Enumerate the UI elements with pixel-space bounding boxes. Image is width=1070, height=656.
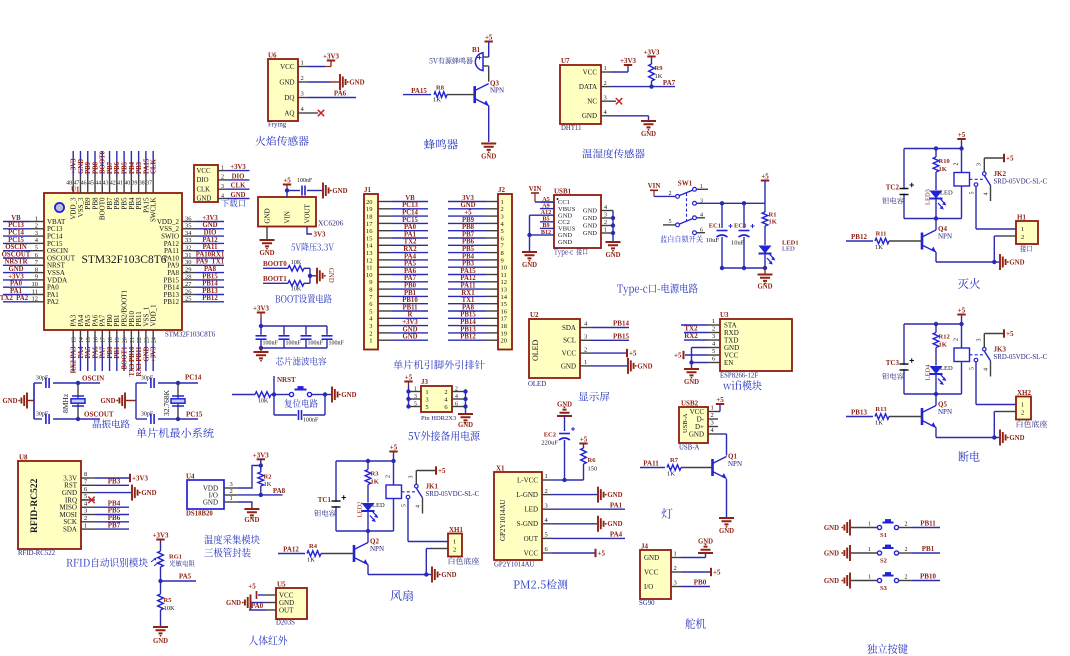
svg-text:+5: +5 (958, 131, 966, 139)
wire left pin 2 net PC13 (3, 222, 44, 229)
svg-text:100nF: 100nF (308, 341, 324, 347)
connector USB2 USB-A (679, 400, 718, 452)
ground Q1 (719, 518, 734, 535)
svg-text:5: 5 (545, 532, 548, 539)
svg-text:OSCIN: OSCIN (82, 375, 104, 383)
sensor U7 DHT11 (560, 57, 611, 132)
wire J2 pin 20 net PB12 (448, 334, 498, 341)
wire net PB10 (899, 573, 941, 581)
sensor U5 D203S human IR (266, 581, 307, 627)
svg-text:LED: LED (372, 502, 385, 509)
svg-text:19: 19 (366, 206, 373, 213)
svg-text:18: 18 (501, 323, 508, 330)
ground DHT11 (641, 121, 656, 138)
svg-text:PA7: PA7 (100, 346, 107, 359)
svg-text:VIN: VIN (284, 211, 292, 223)
svg-text:XC6206: XC6206 (318, 219, 344, 228)
svg-text:R3: R3 (371, 471, 380, 478)
wire net PA5 (158, 573, 196, 584)
svg-text:PA6: PA6 (334, 90, 347, 98)
resistor R5 10K (158, 581, 175, 626)
svg-text:5: 5 (414, 401, 417, 407)
svg-text:4: 4 (983, 368, 989, 371)
svg-text:PB9: PB9 (462, 217, 475, 224)
sensor X1 GP2Y1014AU PM2.5 (494, 465, 552, 569)
svg-text:NPN: NPN (938, 408, 952, 416)
svg-text:R5: R5 (164, 597, 173, 604)
power +3V3 RFID (95, 474, 149, 483)
svg-text:4: 4 (545, 517, 549, 524)
svg-text:LED: LED (782, 246, 795, 253)
wire J2 pin 12 net PA12 (448, 275, 498, 282)
svg-text:4: 4 (711, 427, 715, 434)
svg-text:R9: R9 (655, 65, 664, 72)
svg-text:PB3: PB3 (136, 161, 143, 174)
svg-text:+5: +5 (485, 34, 493, 42)
svg-text:GND: GND (402, 334, 417, 341)
svg-text:+3V3: +3V3 (402, 319, 418, 326)
wire net PA12 with resistor R4 1K (278, 543, 354, 564)
svg-text:6: 6 (84, 486, 88, 493)
svg-text:3: 3 (414, 394, 417, 400)
svg-text:2: 2 (669, 191, 672, 197)
power +5 JK1 rail (389, 444, 397, 464)
svg-text:CLK: CLK (231, 183, 246, 190)
wire right pin 31 net PA10RX1 (182, 251, 225, 258)
svg-text:SG90: SG90 (639, 600, 655, 607)
svg-text:VCC: VCC (197, 168, 211, 175)
svg-text:GND: GND (582, 112, 597, 120)
svg-text:NPN: NPN (490, 87, 504, 95)
svg-text:OUT: OUT (524, 535, 539, 543)
wire J1 pin 3 net +3V3 (378, 319, 428, 326)
svg-text:3: 3 (369, 323, 372, 330)
svg-text:5: 5 (712, 348, 715, 355)
svg-text:DIO: DIO (197, 177, 209, 184)
wire bottom pin 22 net RX3 PB11 (136, 330, 143, 377)
svg-text:PB10: PB10 (920, 573, 936, 581)
svg-text:+5: +5 (283, 177, 291, 185)
svg-text:PA11: PA11 (643, 460, 659, 468)
LED LED3 (925, 189, 953, 218)
svg-text:TC3: TC3 (886, 359, 900, 367)
title 舵机 (685, 618, 705, 629)
ground J3 (458, 392, 473, 430)
svg-text:PB1: PB1 (114, 346, 121, 359)
svg-text:RX2: RX2 (403, 246, 417, 253)
wire bottom pin 15 net PA5 (85, 330, 92, 371)
svg-text:3: 3 (230, 481, 233, 488)
svg-text:2: 2 (386, 475, 392, 478)
capacitor TC3 tantalum (882, 358, 914, 379)
wire BOOT junction to ground (308, 268, 316, 283)
title 人体红外 (249, 635, 287, 645)
svg-text:5: 5 (369, 308, 372, 315)
wire J1 pin 18 net PC14 (378, 210, 428, 217)
svg-text:R7: R7 (670, 457, 679, 464)
svg-text:2: 2 (455, 386, 458, 392)
svg-text:GND: GND (583, 208, 597, 215)
resistor R2 1K (258, 466, 272, 495)
wire right pin 30 net PA9 TX1 (182, 259, 225, 266)
svg-text:PB0: PB0 (404, 283, 417, 290)
svg-text:+5: +5 (580, 436, 588, 444)
ground at regulator GND pin (259, 227, 274, 258)
svg-text:LED: LED (524, 506, 538, 514)
svg-text:5: 5 (501, 228, 504, 235)
no-connect AQ (308, 110, 324, 116)
ground RFID (95, 485, 157, 501)
svg-text:18: 18 (108, 337, 114, 343)
svg-text:PA1: PA1 (610, 501, 623, 509)
svg-text:2: 2 (954, 163, 960, 166)
svg-text:2: 2 (545, 488, 548, 495)
svg-text:SDA: SDA (63, 526, 77, 534)
svg-text:46: 46 (81, 181, 87, 187)
svg-text:4: 4 (584, 321, 588, 328)
svg-text:+5: +5 (1006, 330, 1014, 338)
svg-text:1: 1 (301, 60, 304, 67)
wire bottom pin 18 net PB0 (107, 330, 114, 371)
svg-text:1: 1 (868, 575, 871, 581)
svg-text:4: 4 (221, 193, 224, 199)
svg-text:GND: GND (561, 362, 576, 370)
svg-text:PA4: PA4 (78, 346, 85, 359)
svg-text:GND: GND (481, 154, 496, 161)
svg-text:Frying: Frying (268, 122, 287, 129)
svg-text:PB0: PB0 (107, 346, 114, 359)
svg-text:GND: GND (460, 202, 475, 209)
svg-text:1: 1 (1021, 226, 1024, 233)
svg-text:41: 41 (117, 181, 123, 187)
svg-text:GND: GND (644, 554, 659, 562)
module U3 ESP8266 wifi (708, 311, 792, 380)
svg-text:PB11: PB11 (402, 304, 418, 311)
svg-text:1: 1 (453, 539, 456, 546)
svg-text:VCC: VCC (524, 549, 539, 557)
crystal circuit 8MHz (2, 375, 113, 425)
ground filter caps (254, 348, 269, 362)
svg-text:LED3: LED3 (925, 189, 932, 205)
svg-text:1K: 1K (307, 557, 315, 564)
svg-text:GND: GND (230, 192, 245, 199)
svg-text:1: 1 (1021, 402, 1024, 409)
svg-text:PB4: PB4 (462, 253, 475, 260)
capacitor 100nF reset (274, 395, 325, 424)
svg-text:PA15: PA15 (143, 158, 150, 174)
title 三极管封装 (204, 548, 250, 558)
wire J1 pin 20 net VB (378, 195, 428, 202)
wire net PA11 with resistor R7 1K (640, 457, 713, 478)
wire RST net PB3 (95, 478, 129, 486)
wire left pin 12 net TX2 PA2 (0, 295, 44, 302)
resistor R3 1K (365, 461, 379, 503)
svg-text:CLK: CLK (151, 159, 158, 174)
wire J2 pin 8 net PB5 (448, 246, 498, 253)
wire top rail JK3 (904, 322, 962, 394)
svg-text:SWCLK: SWCLK (150, 198, 158, 223)
wire bottom pin 19 net PB1 (114, 330, 121, 371)
svg-text:GND: GND (197, 196, 212, 203)
svg-text:GND: GND (641, 131, 656, 138)
wire top rail JK2 (904, 146, 962, 218)
svg-text:S2: S2 (880, 558, 887, 565)
net NRST (272, 376, 296, 397)
label 蓝白自锁开关 (660, 235, 702, 242)
svg-text:PB12: PB12 (202, 295, 218, 302)
svg-text:+3V3: +3V3 (253, 305, 270, 313)
svg-text:3: 3 (604, 94, 607, 101)
svg-text:STM32F103C8T6: STM32F103C8T6 (165, 332, 216, 339)
svg-text:3: 3 (301, 91, 304, 98)
svg-text:PB5: PB5 (462, 246, 475, 253)
svg-text:PB14: PB14 (613, 320, 629, 328)
wire top pin 45 net PB8 (92, 151, 99, 193)
svg-text:+5: +5 (390, 444, 398, 452)
wire STA (681, 324, 708, 326)
wire relay common to connector (976, 186, 1016, 229)
svg-text:3: 3 (584, 334, 587, 341)
svg-text:10: 10 (501, 265, 508, 272)
wire J2 pin 9 net PB4 (448, 253, 498, 260)
wire RXD net TX2 (684, 325, 708, 333)
wire left pin 1 net VB (3, 215, 44, 222)
svg-text:DIO: DIO (204, 230, 217, 237)
svg-text:2: 2 (301, 75, 304, 82)
svg-text:PB5: PB5 (121, 161, 128, 174)
svg-text:GND: GND (558, 239, 572, 246)
svg-text:9: 9 (501, 257, 504, 264)
svg-text:GND: GND (607, 492, 622, 499)
svg-text:GND: GND (2, 398, 17, 405)
svg-text:SRD-05VDC-SL-C: SRD-05VDC-SL-C (994, 179, 1048, 186)
svg-text:GND: GND (441, 572, 456, 579)
wire USB1 pin B5 (540, 216, 554, 223)
relay switch JK2 (970, 163, 1048, 201)
svg-text:PA6: PA6 (92, 346, 99, 359)
svg-text:PC13: PC13 (8, 222, 24, 229)
svg-text:PA12: PA12 (202, 237, 218, 244)
wire emitter to ground JK2 (936, 261, 994, 263)
svg-text:13: 13 (366, 250, 373, 257)
svg-text:18: 18 (366, 214, 373, 221)
svg-text:GND: GND (583, 223, 597, 230)
svg-text:U8: U8 (19, 454, 28, 462)
connector XH1 (432, 526, 479, 565)
wire connector pin2 to ground rail (992, 412, 1000, 440)
title 温湿度传感器 (582, 149, 644, 159)
svg-text:OLED: OLED (531, 339, 540, 361)
power +3V3 flame (308, 53, 340, 67)
svg-text:3: 3 (545, 502, 548, 509)
wire USB1 left grounds (527, 215, 540, 252)
capacitor 100nF at regulator input (297, 178, 322, 196)
svg-text:2: 2 (1021, 234, 1024, 241)
svg-text:PA0: PA0 (404, 224, 417, 231)
svg-text:PA5: PA5 (85, 346, 92, 359)
power +5 JK3 rail (957, 307, 965, 327)
wire J2 pin 5 net PB8 (448, 224, 498, 231)
svg-text:8MHz: 8MHz (61, 393, 70, 413)
svg-text:PA4: PA4 (610, 531, 623, 539)
resistor R9 1K pullup (643, 49, 663, 87)
ground above EC2 (557, 402, 572, 432)
ground JK3 (994, 430, 1024, 446)
wire J1 pin 9 net PA7 (378, 275, 428, 282)
svg-text:1: 1 (414, 386, 417, 392)
svg-text:LED: LED (940, 190, 953, 197)
svg-text:LED: LED (940, 365, 953, 372)
svg-text:4: 4 (712, 341, 716, 348)
svg-text:J4: J4 (641, 543, 649, 551)
wire J1 pin 13 net RX2 (378, 246, 428, 253)
svg-text:10uF: 10uF (731, 240, 745, 247)
connector download port (194, 164, 250, 203)
title wifi模块 (723, 380, 762, 390)
svg-text:PB6: PB6 (114, 161, 121, 174)
svg-text:PB3: PB3 (462, 261, 475, 268)
svg-text:VDD_1: VDD_1 (150, 304, 158, 327)
svg-text:EC1: EC1 (709, 223, 721, 230)
wire left pin 3 net PC14 (3, 230, 44, 237)
svg-text:32.768K: 32.768K (162, 389, 171, 416)
svg-text:2: 2 (674, 565, 677, 572)
svg-text:+5: +5 (674, 351, 682, 359)
svg-text:RFID-RC522: RFID-RC522 (18, 550, 56, 557)
wire LED net PA1 (552, 501, 625, 509)
wire USB1 right grounds (601, 205, 615, 241)
svg-text:GND: GND (824, 525, 839, 532)
capacitor C4 100nF (321, 335, 345, 347)
wire J2 pin 1 net 3V3 (448, 195, 498, 202)
svg-text:3: 3 (409, 476, 415, 479)
svg-text:PA2: PA2 (47, 298, 59, 306)
wire J2 pin 4 net PB9 (448, 217, 498, 224)
svg-text:10K: 10K (291, 287, 302, 293)
ground button S3 (824, 573, 877, 589)
svg-text:1K: 1K (875, 420, 883, 427)
svg-text:PB1: PB1 (404, 290, 417, 297)
svg-text:NPN: NPN (938, 233, 952, 241)
svg-text:GND: GND (583, 230, 597, 237)
power VIN switch (648, 182, 676, 196)
svg-text:RX3 PB11: RX3 PB11 (136, 346, 143, 377)
svg-text:TX1: TX1 (462, 297, 475, 304)
regulator XC6206 (258, 197, 344, 228)
wire net PA6 (308, 90, 356, 98)
svg-text:JK1: JK1 (426, 483, 439, 491)
wire filter cap rails (259, 326, 327, 350)
svg-text:45: 45 (88, 181, 94, 187)
svg-text:GND: GND (78, 159, 85, 174)
svg-text:VOUT: VOUT (304, 203, 312, 223)
svg-text:PB7: PB7 (108, 521, 121, 529)
svg-text:PB13: PB13 (460, 326, 476, 333)
svg-text:I/O: I/O (644, 583, 653, 591)
wire J1 pin 14 net TX2 (378, 239, 428, 246)
ground at input cap (323, 183, 348, 199)
svg-text:1: 1 (868, 547, 871, 553)
svg-text:5: 5 (970, 367, 976, 370)
svg-text:4: 4 (604, 205, 607, 211)
svg-text:1K: 1K (433, 97, 441, 104)
LED1 (759, 240, 799, 269)
svg-text:+5: +5 (438, 467, 446, 475)
svg-text:R4: R4 (309, 543, 318, 550)
push button S2 (868, 545, 908, 565)
svg-text:GND: GND (153, 638, 168, 645)
svg-text:1: 1 (604, 227, 607, 233)
svg-text:DATA: DATA (579, 83, 597, 91)
svg-text:XH2: XH2 (1017, 389, 1032, 397)
wire USB1 pin A12 (540, 209, 554, 216)
svg-text:PB4: PB4 (129, 161, 136, 174)
wire DATA to PA7 (611, 79, 676, 89)
svg-text:22: 22 (137, 337, 143, 343)
svg-text:GND: GND (637, 363, 652, 370)
wire buzzer to Q3 collector (488, 66, 490, 82)
svg-text:30pF: 30pF (36, 412, 49, 418)
svg-text:SDA: SDA (562, 324, 576, 332)
module U8 RFID-RC522 (18, 454, 95, 558)
svg-text:PA7: PA7 (404, 275, 417, 282)
wire USB1 pin A9 (540, 202, 554, 209)
svg-text:48: 48 (66, 181, 72, 187)
svg-text:5: 5 (84, 493, 87, 500)
svg-text:VCC: VCC (644, 568, 659, 576)
power +3V3 filter caps (253, 305, 270, 329)
wire J2 pin 16 net PA8 (448, 304, 498, 311)
svg-text:+3V3: +3V3 (132, 474, 149, 482)
wire J2 pin 18 net PB14 (448, 319, 498, 326)
svg-text:12: 12 (501, 279, 508, 286)
wire net PB12 with resistor R11 1K (846, 231, 922, 252)
svg-text:U4: U4 (186, 473, 195, 481)
svg-text:2: 2 (501, 206, 504, 213)
svg-text:ESP8266-12F: ESP8266-12F (720, 373, 758, 380)
wire top pin 40 net PB4 (129, 151, 136, 193)
wire top pin 39 net PB3 (136, 151, 143, 193)
wire top rail JK1 (336, 459, 394, 531)
wire connector pin2 to ground rail (992, 236, 1000, 264)
svg-text:PB10: PB10 (402, 297, 418, 304)
relay coil JK1 (386, 461, 416, 531)
svg-text:PB12: PB12 (460, 334, 476, 341)
title 灯 (661, 508, 672, 519)
svg-text:2: 2 (712, 326, 715, 333)
svg-text:PB14: PB14 (202, 281, 218, 288)
svg-text:4: 4 (604, 109, 608, 116)
svg-text:RX1: RX1 (461, 290, 475, 297)
svg-text:PA5: PA5 (404, 261, 417, 268)
svg-text:GND: GND (824, 550, 839, 557)
svg-text:+5: +5 (464, 210, 472, 217)
ground reset (325, 387, 357, 403)
svg-text:+3V3: +3V3 (323, 53, 340, 61)
svg-text:GND: GND (698, 539, 713, 546)
svg-text:GND: GND (203, 498, 218, 506)
svg-text:PA15: PA15 (460, 268, 476, 275)
svg-text:10K: 10K (258, 399, 269, 405)
svg-text:PB14: PB14 (460, 319, 476, 326)
crystal circuit 32.768K (100, 374, 202, 425)
svg-text:PB12: PB12 (163, 298, 179, 306)
svg-text:30pF: 30pF (36, 376, 49, 382)
svg-text:+3V3: +3V3 (8, 273, 24, 280)
svg-text:U3: U3 (720, 311, 729, 319)
title 温度采集模块 (204, 535, 259, 545)
svg-text:2: 2 (1021, 409, 1024, 416)
